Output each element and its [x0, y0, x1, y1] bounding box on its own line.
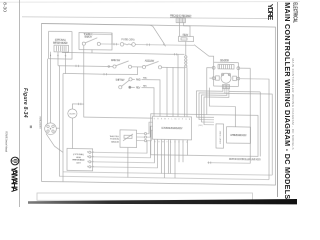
- svg-text:O: O: [178, 119, 180, 121]
- wire motor left terminal upper: [207, 68, 213, 115]
- wire stub tow/run pivot to power wire: [91, 50, 93, 53]
- board bottom pin labels: [154, 141, 188, 144]
- motor controller enclosing box: [151, 114, 258, 157]
- wire relay to connector stack: [185, 41, 187, 55]
- inline connector marks on power wire: [175, 53, 177, 55]
- battery box pins: [89, 151, 91, 153]
- battery box: [67, 148, 93, 170]
- svg-text:YDRA/E Service Manual: YDRA/E Service Manual: [4, 131, 7, 152]
- inline connector marks: [209, 162, 211, 164]
- svg-text:G: G: [65, 56, 67, 58]
- dc motor box: [214, 62, 239, 86]
- battery wires staircase to board: [91, 140, 147, 153]
- svg-text:G: G: [154, 118, 156, 120]
- diagonal relay to motor: [194, 45, 214, 63]
- wire frame-top branch with rounded corner diagonal: [42, 23, 165, 44]
- svg-text:MAIN CONTROLLER WIRING DIAGRAM: MAIN CONTROLLER WIRING DIAGRAM - DC MODE…: [291, 59, 295, 150]
- wire accel sw to relay connector: [162, 66, 185, 68]
- svg-text:Y: Y: [168, 118, 170, 120]
- power wire to relay connector: [62, 53, 184, 55]
- receiver lead left: [179, 23, 181, 37]
- svg-text:W: W: [162, 142, 164, 144]
- receiver connector: [176, 18, 185, 23]
- optional meter label: [53, 39, 68, 45]
- wire sensor down to bus: [127, 147, 129, 177]
- svg-text:SHIFT SW: SHIFT SW: [115, 78, 125, 82]
- throttle sensor label: [110, 136, 120, 144]
- margin mark: [30, 126, 32, 129]
- wire motor right terminal upper to right bus: [207, 68, 250, 164]
- svg-text:(DR): (DR): [198, 125, 203, 127]
- scanner edge artifact line top: [0, 1, 300, 4]
- wire main sw to accel sw: [132, 66, 143, 68]
- svg-text:BATTERY METER: BATTERY METER: [53, 42, 68, 45]
- relay RY1: [179, 36, 194, 41]
- wire meter to receptacle 1: [47, 59, 49, 124]
- inline connector marks: [114, 43, 116, 45]
- wire tow/run to fuse: [100, 43, 119, 45]
- tow/run switch SW1: [82, 42, 85, 45]
- optional meter connector: [54, 45, 69, 52]
- motor bottom connector: [222, 85, 229, 89]
- svg-text:RECEPTACLE: RECEPTACLE: [39, 115, 42, 128]
- svg-text:UNIT: UNIT: [76, 162, 81, 164]
- svg-text:R: R: [158, 142, 160, 144]
- row2 wire: [63, 74, 138, 75]
- svg-text:G: G: [185, 119, 187, 121]
- accel switch SW3: [142, 65, 145, 68]
- wire staircase branch right to frame-side bus: [225, 93, 272, 175]
- footer rule (left vertical line): [19, 0, 21, 207]
- wire fuse to relay area: [135, 43, 194, 46]
- wire receptacle right to bus: [56, 127, 59, 129]
- white board box: [227, 127, 251, 144]
- main switch row wire: [58, 65, 113, 68]
- wire meter to receptacle 2: [50, 59, 52, 123]
- inline connector marks row1: [76, 65, 78, 67]
- buzzer: [68, 109, 77, 118]
- wire motor right terminal lower to right bus: [240, 79, 269, 180]
- inline connector marks row2: [104, 73, 106, 75]
- wire vertical at tow/run box right: [111, 33, 113, 44]
- left bus wire A: [60, 66, 270, 180]
- tow/run switch box: [79, 32, 112, 50]
- svg-text:HIGH: HIGH: [76, 157, 81, 159]
- svg-text:MOTOR CONTROLLER UNIT ASSY: MOTOR CONTROLLER UNIT ASSY: [229, 158, 261, 162]
- svg-text:BUZZER: BUZZER: [69, 113, 76, 115]
- wire row1 taps to board: [167, 67, 173, 116]
- svg-text:REV: REV: [136, 86, 141, 89]
- battery box label: [72, 153, 85, 165]
- Yamaha tuning fork logo: [11, 157, 19, 165]
- svg-text:WHITE BOARD ASSY: WHITE BOARD ASSY: [230, 134, 247, 137]
- motor bottom wires staircase to controller: [197, 88, 223, 118]
- throttle sensor box: [120, 130, 137, 148]
- svg-text:SENSOR: SENSOR: [111, 141, 119, 143]
- page top edge artifact line: [22, 17, 273, 19]
- tow/run switch label: [84, 33, 93, 39]
- svg-text:B: B: [157, 118, 159, 120]
- wire meter pin to main switch row: [57, 59, 59, 66]
- control board box: [153, 116, 192, 140]
- svg-text:CONTROL BOARD ASSY: CONTROL BOARD ASSY: [161, 127, 183, 130]
- shift switch SW4 contacts: [129, 78, 132, 81]
- svg-text:MAIN SW: MAIN SW: [111, 58, 121, 62]
- svg-text:(OPTIONAL): (OPTIONAL): [73, 153, 84, 156]
- wire motor bottom long to white board: [209, 88, 235, 127]
- svg-text:YAMAHA: YAMAHA: [10, 167, 19, 193]
- svg-text:SWITCH: SWITCH: [84, 36, 92, 39]
- svg-text:FUSE (10A): FUSE (10A): [122, 38, 135, 41]
- charger receptacle: [45, 123, 57, 135]
- potentiometer symbol: [124, 135, 132, 138]
- svg-text:L: L: [171, 142, 172, 144]
- main switch SW2: [113, 65, 116, 68]
- svg-text:R: R: [57, 55, 59, 57]
- wire motor left terminal lower: [209, 77, 212, 79]
- wire tow/run left contact down to board: [84, 45, 153, 118]
- wire buzzer bottom to battery box: [71, 118, 73, 148]
- junction diagonal on fuse wire: [163, 44, 165, 46]
- svg-text:ELECTRICAL: ELECTRICAL: [292, 2, 298, 23]
- svg-text:HEAT SINK: HEAT SINK: [219, 130, 222, 144]
- svg-text:8-30: 8-30: [1, 2, 7, 12]
- sensor wires to board: [137, 122, 153, 141]
- sensor connector circles: [144, 133, 146, 135]
- wire row link down: [137, 67, 139, 75]
- optional meter box: [49, 31, 72, 59]
- optional meter pin leads: [51, 52, 66, 59]
- svg-text:B: B: [50, 55, 52, 57]
- bottom thin page-edge rectangle: [37, 193, 253, 200]
- receiver label underline: [170, 16, 192, 18]
- wire staircase branch right to bus: [229, 90, 260, 92]
- right bus extra wire: [259, 92, 261, 157]
- svg-text:PERFORMANCE: PERFORMANCE: [72, 159, 85, 162]
- wire buzzer top: [72, 104, 83, 109]
- left bus wire B to frame bottom: [62, 74, 64, 182]
- svg-text:Br: Br: [175, 119, 177, 121]
- header rule (right vertical line): [277, 2, 279, 197]
- heat sink narrow box: [216, 124, 224, 148]
- wire fwd row: [132, 79, 160, 116]
- svg-text:W: W: [164, 118, 166, 120]
- connector stack 4P: [185, 56, 187, 58]
- motor terminals: [212, 66, 215, 69]
- svg-text:P: P: [182, 119, 184, 121]
- svg-text:R: R: [161, 118, 163, 120]
- bottom bus wire 1: [63, 172, 272, 175]
- svg-text:Figure 8-34: Figure 8-34: [22, 88, 28, 118]
- svg-text:B: B: [189, 119, 191, 121]
- svg-text:B: B: [154, 141, 156, 143]
- svg-text:YDRE: YDRE: [266, 4, 275, 21]
- wires stack to board: [185, 67, 187, 116]
- wire power tap to board: [177, 54, 179, 116]
- svg-text:MAIN CONTROLLER WIRING DIAGRAM: MAIN CONTROLLER WIRING DIAGRAM - DC MODE…: [283, 2, 292, 199]
- board bottom wires to buses: [162, 139, 188, 178]
- wire receptacle diagonal down: [46, 134, 63, 153]
- svg-text:L: L: [172, 119, 173, 121]
- motor armature M: [221, 73, 231, 83]
- svg-text:FWD: FWD: [136, 78, 141, 81]
- receiver lead right jog: [184, 23, 190, 37]
- inline connector marks: [147, 44, 149, 46]
- board top pin labels: [154, 118, 191, 121]
- wire meter pin to row2: [65, 59, 67, 74]
- inline connector marks buzzer wire: [79, 103, 81, 105]
- svg-text:Y: Y: [166, 142, 168, 144]
- motor connector strip: [218, 64, 234, 69]
- svg-text:ACCEL SW: ACCEL SW: [145, 59, 155, 63]
- wire rev row: [131, 87, 154, 116]
- figure frame: [42, 23, 276, 185]
- fuse F1: [120, 42, 124, 46]
- optional meter pin labels: [50, 55, 67, 57]
- bullet connector row1: [108, 66, 110, 68]
